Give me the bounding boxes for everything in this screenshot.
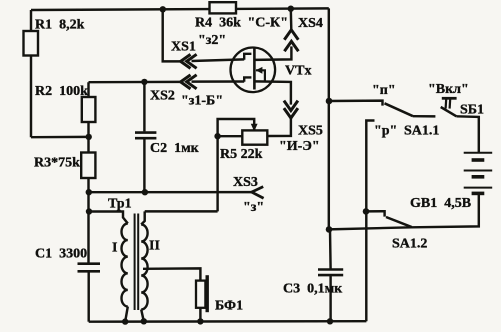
wire XS2 to gate1	[192, 80, 245, 83]
wire BF1 bottom lead	[199, 308, 201, 322]
transistor VTx circle	[231, 48, 276, 93]
junction dot R3 bottom node	[86, 189, 92, 195]
R5 wiper arrowhead	[251, 124, 258, 132]
resistor R4	[210, 2, 237, 13]
wire base line to XS3	[89, 191, 252, 194]
wire left vertical	[30, 10, 32, 137]
svg-text:"Вкл": "Вкл"	[428, 82, 469, 97]
transistor VTx channel	[253, 49, 256, 90]
svg-text:SA1.1: SA1.1	[404, 124, 439, 139]
junction dot top XS4 branch	[288, 6, 294, 12]
socket XS3 fork	[252, 187, 264, 199]
transistor VTx gate2 electrode	[244, 54, 251, 60]
wire SA1.2 contact stub	[366, 211, 385, 216]
svg-text:R2 100k: R2 100k	[35, 84, 88, 99]
svg-text:С3 0,1мк: С3 0,1мк	[283, 282, 343, 297]
junction dot rail winding II	[141, 318, 147, 324]
wire R5 left lead	[218, 135, 243, 137]
svg-text:II: II	[149, 239, 160, 254]
svg-text:"з2": "з2"	[198, 33, 226, 48]
svg-text:"з": "з"	[243, 200, 264, 215]
wire SA1.2 pole to battery minus	[329, 194, 479, 229]
wire right bus	[329, 8, 331, 268]
pushbutton SB1 actuator	[442, 98, 457, 108]
wire winding II top lead	[141, 211, 145, 224]
wire winding II bottom lead	[141, 310, 144, 322]
wire XS4 to top rail	[290, 9, 293, 30]
junction dot bus SA1.2 branch	[326, 226, 333, 233]
switch SA1.2 blade	[386, 217, 412, 227]
wire XS5 to R5	[267, 118, 291, 136]
svg-text:VTx: VTx	[285, 64, 311, 79]
junction dot bus SA1.1 branch	[326, 98, 333, 105]
svg-text:С1 3300: С1 3300	[35, 247, 87, 262]
transistor VTx substrate arrowhead	[256, 67, 263, 74]
resistor R1	[24, 31, 39, 56]
junction dot R2-R3 node	[86, 134, 92, 140]
wire R2 top horizontal to XS2	[89, 81, 181, 84]
wire top rail	[31, 8, 329, 10]
wire SA1.1 contact p stub	[329, 101, 383, 106]
junction dot C2 top node	[141, 79, 147, 85]
svg-text:XS5: XS5	[298, 124, 323, 139]
svg-text:SA1.2: SA1.2	[392, 237, 427, 252]
svg-text:R5 22k: R5 22k	[220, 147, 263, 162]
junction dot SA1.2 contact	[363, 208, 370, 215]
transistor VTx substrate lead	[256, 70, 265, 81]
wire contact r vertical	[366, 121, 374, 322]
resistor R2	[82, 97, 96, 122]
wire R2-R3 chain vertical	[87, 82, 89, 262]
svg-text:"С-К": "С-К"	[248, 16, 288, 31]
junction dot winding I branch	[86, 208, 92, 214]
capacitor C1	[78, 264, 101, 272]
wire C2 upper lead	[143, 82, 145, 131]
transistor VTx gate1 electrode	[244, 77, 251, 81]
pushbutton SB1 blade	[441, 107, 457, 116]
svg-text:"з1-Б": "з1-Б"	[181, 94, 223, 109]
transformer Tr1 winding II	[141, 225, 147, 310]
switch SA1.1 blade	[385, 103, 414, 116]
svg-text:"р": "р"	[374, 124, 397, 139]
wire C3 bottom lead	[329, 276, 331, 321]
headphone BF1 bar	[205, 275, 208, 312]
svg-text:R1 8,2k: R1 8,2k	[35, 18, 85, 33]
headphone BF1 box	[196, 281, 205, 308]
connector XS1 chevrons	[181, 54, 197, 68]
wire bottom rail	[89, 320, 367, 323]
wire winding I top	[89, 212, 128, 224]
svg-text:XS4: XS4	[298, 16, 323, 31]
wire SA1.1 pole to SB1	[413, 115, 435, 118]
svg-text:XS2: XS2	[150, 89, 175, 104]
wire R1 bottom to R2R3 junction	[31, 136, 89, 139]
wire R5 wiper	[218, 119, 255, 211]
svg-text:"п": "п"	[372, 83, 396, 98]
wire C2 lower lead	[143, 139, 145, 192]
connector XS4 chevrons	[284, 30, 298, 52]
resistor R3	[81, 153, 95, 179]
junction dot rail winding I	[122, 318, 128, 324]
wire winding II tap to BF1	[143, 268, 200, 280]
capacitor C3	[318, 270, 343, 276]
wire XS1 to gate2	[192, 59, 245, 61]
svg-text:XS3: XS3	[233, 175, 258, 190]
connector XS5 chevrons	[284, 101, 298, 118]
resistor R5	[242, 130, 267, 144]
svg-text:"И-Э": "И-Э"	[279, 139, 320, 154]
junction dot rail BF1	[197, 318, 203, 324]
transistor VTx drain lead	[254, 46, 291, 60]
junction dot rail C3	[327, 318, 333, 324]
svg-text:I: I	[112, 241, 117, 256]
wire C1 bottom lead	[87, 272, 89, 321]
svg-text:SБ1: SБ1	[460, 103, 484, 118]
junction dot R5 left node	[214, 133, 220, 139]
svg-text:GB1 4,5В: GB1 4,5В	[410, 196, 471, 211]
svg-text:XS1: XS1	[171, 40, 196, 55]
svg-text:R3*75k: R3*75k	[34, 156, 80, 171]
transformer Tr1 core	[135, 214, 139, 311]
svg-text:R4 36k: R4 36k	[195, 16, 241, 31]
capacitor C2	[135, 133, 156, 139]
svg-text:Тр1: Тр1	[108, 197, 132, 212]
wire SB1 to battery plus	[456, 116, 478, 152]
svg-text:С2 1мк: С2 1мк	[150, 141, 200, 156]
junction dot top XS1 branch	[160, 6, 166, 12]
wire winding I bottom lead	[125, 307, 128, 322]
wire top branch to XS1	[163, 9, 181, 61]
transformer Tr1 winding I	[121, 224, 127, 307]
connector XS2 chevrons	[181, 75, 197, 89]
junction dot C2 bottom node	[142, 189, 148, 195]
svg-text:БФ1: БФ1	[215, 299, 243, 314]
wire winding II top to R5 vertical	[145, 210, 218, 212]
transistor VTx source lead	[254, 81, 291, 104]
battery GB1	[464, 153, 493, 194]
